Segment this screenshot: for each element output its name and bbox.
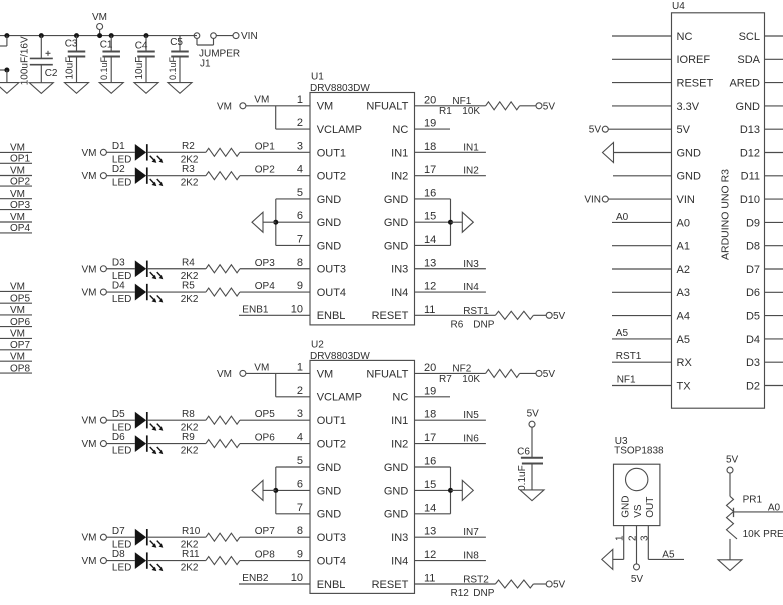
svg-text:VM: VM (82, 288, 97, 299)
svg-text:D8: D8 (746, 241, 760, 253)
wire SDA stub (765, 58, 783, 60)
svg-text:VM: VM (217, 369, 232, 380)
jumper J1 (194, 33, 240, 70)
svg-text:IN1: IN1 (463, 142, 479, 153)
wire (246, 372, 310, 374)
svg-text:4: 4 (297, 432, 303, 444)
ground (168, 83, 192, 94)
label DRV8803DW (310, 83, 370, 94)
svg-text:16: 16 (424, 187, 436, 199)
wire node NF2 (415, 363, 486, 374)
svg-text:D4: D4 (112, 281, 125, 292)
wire (106, 175, 134, 177)
svg-text:IN3: IN3 (391, 264, 408, 276)
svg-text:OP5: OP5 (255, 409, 275, 420)
op-amp U3 body (614, 464, 660, 525)
svg-text:A0: A0 (616, 212, 629, 223)
svg-text:C6: C6 (517, 447, 530, 458)
wire node OP4 (240, 281, 310, 292)
node 5V terminal PR1 (726, 455, 739, 474)
svg-text:OP1: OP1 (255, 141, 275, 152)
node VM terminal U1 pin 1 (217, 95, 269, 113)
svg-text:R9: R9 (182, 432, 195, 443)
wire D3 stub (765, 361, 783, 363)
node OP3 flag (0, 200, 32, 211)
svg-text:OUT4: OUT4 (317, 287, 346, 299)
svg-text:NFUALT: NFUALT (366, 368, 408, 380)
svg-text:RESET: RESET (372, 310, 409, 322)
svg-text:NC: NC (392, 124, 408, 136)
svg-text:R1: R1 (439, 106, 452, 117)
ground (603, 143, 614, 163)
svg-text:D11: D11 (741, 171, 760, 183)
wire (276, 106, 310, 129)
svg-text:D5: D5 (746, 311, 760, 323)
wire NC stub (415, 396, 451, 398)
svg-text:NF1: NF1 (452, 96, 471, 107)
svg-text:VM: VM (10, 351, 25, 362)
svg-text:D2: D2 (746, 380, 760, 392)
wire (612, 35, 672, 37)
svg-text:D3: D3 (112, 257, 125, 268)
svg-text:IN2: IN2 (463, 166, 479, 177)
wire (612, 268, 672, 270)
svg-text:U1: U1 (311, 72, 324, 83)
svg-text:OP3: OP3 (255, 258, 275, 269)
node OP7 flag (0, 340, 32, 351)
svg-text:IN4: IN4 (463, 282, 479, 293)
svg-text:A2: A2 (677, 264, 690, 276)
resistor R11 (181, 549, 240, 574)
wire (147, 536, 206, 538)
wire D9 stub (765, 221, 783, 223)
diode D4 (112, 281, 163, 306)
ground (462, 480, 473, 500)
node VM flag (0, 329, 32, 340)
wire SCL stub (765, 35, 783, 37)
svg-text:U2: U2 (311, 339, 324, 350)
svg-text:DRV8803DW: DRV8803DW (310, 83, 370, 94)
svg-text:OP8: OP8 (255, 550, 275, 561)
svg-text:ARDUINO UNO R3: ARDUINO UNO R3 (720, 169, 732, 260)
label U1 (311, 72, 324, 83)
svg-text:GND: GND (384, 217, 409, 229)
svg-text:U4: U4 (672, 1, 685, 12)
svg-text:TSOP1838: TSOP1838 (614, 445, 664, 456)
svg-text:A4: A4 (677, 311, 690, 323)
svg-text:GND: GND (317, 217, 342, 229)
node VM flag (0, 351, 32, 362)
svg-text:100uF/16V: 100uF/16V (20, 36, 31, 85)
node VM terminal D2 row (82, 171, 107, 182)
svg-text:C4: C4 (135, 41, 148, 52)
wire D6 stub (765, 291, 783, 293)
svg-text:9: 9 (297, 549, 303, 561)
svg-text:GND: GND (384, 462, 409, 474)
wire D2 stub (765, 385, 783, 387)
svg-text:6: 6 (297, 210, 303, 222)
svg-text:DNP: DNP (473, 588, 494, 599)
svg-text:D9: D9 (746, 217, 760, 229)
svg-text:11: 11 (424, 573, 435, 585)
wire (531, 464, 533, 490)
svg-text:OP5: OP5 (10, 293, 30, 304)
ground (134, 83, 158, 94)
svg-text:IN7: IN7 (463, 527, 479, 538)
node 5V terminal C6 (527, 409, 540, 428)
svg-text:10K PRESET: 10K PRESET (743, 529, 783, 540)
svg-text:2K2: 2K2 (181, 178, 199, 189)
wire VM rail (0, 35, 197, 37)
node VM terminal D6 row (82, 439, 107, 450)
svg-text:D5: D5 (112, 409, 125, 420)
wire node RST2 (415, 575, 496, 586)
node 5V terminal U4 (589, 125, 609, 136)
wire (612, 105, 672, 107)
label DRV8803DW (310, 351, 370, 362)
svg-text:SCL: SCL (739, 31, 760, 43)
label U2 pin names (317, 368, 409, 591)
resistor R2 (181, 141, 240, 166)
svg-text:OP6: OP6 (255, 433, 275, 444)
svg-text:D12: D12 (740, 147, 760, 159)
op-amp U4 body (672, 13, 765, 408)
capacitor C1 (99, 33, 120, 83)
wire node A5 U3 pin 3 (648, 526, 684, 561)
svg-text:10: 10 (291, 303, 303, 315)
ground (0, 83, 19, 94)
svg-text:15: 15 (424, 211, 436, 223)
wire connector pin 2 to ground (0, 68, 9, 83)
wire (106, 291, 134, 293)
svg-text:VM: VM (82, 556, 97, 567)
wire D12 stub (765, 152, 783, 154)
label U1 pin names (317, 101, 409, 323)
svg-text:18: 18 (424, 409, 436, 421)
svg-text:GND: GND (317, 462, 342, 474)
svg-text:5V: 5V (543, 369, 556, 380)
svg-text:VM: VM (82, 264, 97, 275)
svg-text:0.1uF: 0.1uF (99, 56, 109, 80)
wire (608, 198, 671, 200)
capacitor C5 (168, 36, 189, 83)
svg-text:20: 20 (424, 362, 436, 374)
svg-text:GND: GND (384, 485, 409, 497)
svg-text:OP4: OP4 (10, 223, 30, 234)
svg-text:D8: D8 (112, 549, 125, 560)
wire (533, 314, 546, 316)
resistor R12 DNP (451, 580, 534, 599)
svg-text:VIN: VIN (677, 194, 695, 206)
svg-text:VM: VM (217, 101, 232, 112)
wire node RST1 (415, 306, 496, 317)
wire node ENB1 (239, 305, 310, 316)
svg-text:2: 2 (297, 117, 303, 129)
svg-text:TX: TX (677, 380, 692, 392)
svg-text:NC: NC (392, 392, 408, 404)
svg-text:VM: VM (10, 189, 25, 200)
svg-text:IN2: IN2 (391, 171, 408, 183)
svg-text:20: 20 (424, 94, 436, 106)
svg-text:GND: GND (317, 509, 342, 521)
svg-text:5V: 5V (543, 102, 556, 113)
svg-text:5V: 5V (631, 574, 644, 585)
svg-text:A5: A5 (677, 334, 690, 346)
wire node IN4 (415, 282, 486, 293)
node VM terminal D8 row (82, 556, 107, 567)
svg-text:RX: RX (677, 357, 693, 369)
svg-text:16: 16 (424, 456, 436, 468)
wire (729, 539, 731, 560)
svg-text:OUT3: OUT3 (317, 264, 346, 276)
wire node A5 (612, 328, 672, 339)
wire (614, 152, 672, 154)
svg-text:VM: VM (317, 368, 334, 380)
svg-text:VM: VM (10, 329, 25, 340)
resistor R6 DNP (451, 311, 534, 330)
svg-text:GND: GND (384, 509, 409, 521)
resistor R8 (181, 409, 240, 434)
node VM terminal D7 row (82, 533, 107, 544)
diode D7 (112, 526, 163, 551)
wire node A0 wiper (734, 502, 783, 517)
svg-text:OP4: OP4 (255, 281, 275, 292)
svg-text:R6: R6 (451, 319, 464, 330)
svg-text:LED: LED (112, 178, 131, 189)
ground (602, 549, 613, 569)
svg-text:D4: D4 (746, 334, 760, 346)
svg-text:VM: VM (82, 148, 97, 159)
svg-text:VM: VM (10, 212, 25, 223)
wire U3 pin 2 (636, 526, 638, 564)
node OP5 flag (0, 293, 32, 304)
wire (608, 128, 671, 130)
wire node OP5 (240, 409, 310, 420)
ground (462, 212, 473, 232)
resistor R4 (181, 257, 240, 282)
wire node OP3 (240, 258, 310, 269)
node OP1 flag (0, 154, 32, 165)
node VM rail / connector junction (0, 33, 9, 46)
svg-text:A1: A1 (677, 241, 690, 253)
svg-text:GND: GND (736, 101, 761, 113)
wire node IN5 (415, 410, 486, 421)
svg-text:VIN: VIN (241, 31, 258, 42)
capacitor C6 (517, 447, 543, 491)
diode D5 (112, 409, 163, 434)
svg-text:OP1: OP1 (10, 154, 30, 165)
wire (106, 419, 134, 421)
svg-text:LED: LED (112, 446, 131, 457)
svg-text:OP3: OP3 (10, 200, 30, 211)
svg-text:VM: VM (82, 416, 97, 427)
node VM flag (0, 282, 32, 293)
svg-text:VM: VM (10, 305, 25, 316)
svg-text:IN4: IN4 (391, 287, 408, 299)
svg-text:IOREF: IOREF (677, 54, 711, 66)
svg-text:D6: D6 (112, 432, 125, 443)
svg-text:17: 17 (424, 164, 436, 176)
svg-text:NF2: NF2 (452, 363, 471, 374)
wire node NF1 (415, 96, 486, 107)
svg-text:LED: LED (112, 563, 131, 574)
svg-text:OUT4: OUT4 (317, 556, 346, 568)
wire (613, 175, 672, 177)
op-amp U2 body (310, 360, 415, 593)
svg-text:10K: 10K (462, 374, 480, 385)
resistor PR1 10K PRESET (727, 495, 783, 541)
svg-text:LED: LED (112, 294, 131, 305)
svg-text:IN1: IN1 (391, 147, 408, 159)
svg-text:R2: R2 (182, 141, 195, 152)
diode D2 (112, 164, 163, 189)
svg-text:13: 13 (424, 257, 436, 269)
svg-text:IN3: IN3 (463, 259, 479, 270)
label U1 pin numbers (291, 94, 437, 316)
svg-text:VM: VM (254, 362, 269, 373)
resistor R1 10K (439, 102, 520, 117)
svg-text:OP7: OP7 (10, 340, 30, 351)
svg-text:C1: C1 (100, 39, 113, 50)
ground (65, 83, 89, 94)
svg-text:RST1: RST1 (463, 306, 489, 317)
svg-text:OUT1: OUT1 (317, 415, 346, 427)
svg-text:10: 10 (291, 572, 303, 584)
svg-text:OP8: OP8 (10, 363, 30, 374)
wire (106, 268, 134, 270)
svg-text:R4: R4 (182, 257, 195, 268)
svg-text:ENB1: ENB1 (242, 305, 269, 316)
wire (520, 372, 536, 374)
svg-text:OP7: OP7 (255, 526, 275, 537)
svg-text:5V: 5V (527, 409, 540, 420)
svg-text:VM: VM (10, 166, 25, 177)
svg-text:GND: GND (677, 147, 702, 159)
svg-text:D6: D6 (746, 287, 760, 299)
svg-text:C2: C2 (45, 68, 58, 79)
wire node OP7 (240, 526, 310, 537)
wire D10 stub (765, 198, 783, 200)
svg-text:R11: R11 (182, 549, 200, 560)
svg-text:17: 17 (424, 432, 436, 444)
svg-text:NFUALT: NFUALT (366, 101, 408, 113)
svg-text:VM: VM (92, 12, 107, 23)
svg-text:D10: D10 (740, 194, 760, 206)
svg-text:VCLAMP: VCLAMP (317, 392, 362, 404)
wire (147, 151, 206, 153)
svg-text:A3: A3 (677, 287, 690, 299)
svg-text:11: 11 (424, 304, 435, 316)
wire node ENB2 (239, 573, 310, 584)
svg-text:15: 15 (424, 479, 436, 491)
svg-text:RST1: RST1 (616, 351, 642, 362)
label U2 pin numbers (291, 361, 437, 584)
svg-text:RST2: RST2 (463, 575, 489, 586)
node OP4 flag (0, 223, 32, 234)
svg-text:2K2: 2K2 (181, 294, 199, 305)
wire node NF1 (612, 375, 672, 386)
svg-text:R8: R8 (182, 409, 195, 420)
wire D8 stub (765, 245, 783, 247)
svg-text:4: 4 (297, 164, 303, 176)
wire (533, 583, 546, 585)
node VM flag (0, 166, 32, 177)
svg-text:A5: A5 (616, 328, 629, 339)
wire D4 stub (765, 338, 783, 340)
ground (252, 212, 263, 232)
node VIN terminal U4 (584, 194, 608, 205)
node 5V terminal U3 (631, 564, 644, 585)
svg-text:0.1uF: 0.1uF (168, 56, 178, 80)
label U2 (311, 339, 324, 350)
svg-text:8: 8 (297, 257, 303, 269)
svg-text:VM: VM (82, 171, 97, 182)
svg-text:19: 19 (424, 385, 436, 397)
wire node RST1 (612, 351, 672, 362)
svg-text:VM: VM (10, 282, 25, 293)
svg-text:0.1uF: 0.1uF (517, 465, 528, 491)
wire U2 GND pins 14-16 (415, 467, 463, 514)
svg-text:D7: D7 (746, 264, 760, 276)
svg-text:1: 1 (297, 94, 303, 106)
node VM terminal U2 pin 1 (217, 362, 269, 380)
label U3 pin numbers (615, 535, 651, 541)
wire (147, 268, 206, 270)
diode D3 (112, 257, 163, 282)
wire (612, 245, 672, 247)
svg-text:SDA: SDA (737, 54, 760, 66)
svg-text:5V: 5V (726, 455, 739, 466)
label U4 (672, 1, 685, 12)
svg-text:D13: D13 (740, 124, 760, 136)
U3 lens (626, 468, 648, 490)
capacitor C4 (134, 33, 155, 83)
wire node IN6 (415, 434, 486, 445)
wire node IN1 (415, 142, 486, 153)
svg-text:10K: 10K (462, 106, 480, 117)
node VM flag (0, 143, 32, 154)
wire (147, 443, 206, 445)
ground (29, 83, 53, 94)
svg-text:PR1: PR1 (743, 495, 763, 506)
svg-text:RESET: RESET (677, 78, 714, 90)
svg-text:OUT: OUT (645, 497, 656, 518)
ground (252, 480, 263, 500)
wire GND stub (765, 105, 783, 107)
wire node OP8 (240, 550, 310, 561)
svg-text:IN1: IN1 (391, 415, 408, 427)
wire (106, 560, 134, 562)
svg-text:DNP: DNP (473, 319, 494, 330)
wire node OP2 (240, 165, 310, 176)
wire (216, 35, 233, 37)
diode D6 (112, 432, 163, 457)
node VM flag (0, 212, 32, 223)
wire node IN8 (415, 551, 486, 562)
wire U1 GND pins 14-16 (415, 199, 463, 246)
wire (106, 443, 134, 445)
wire (531, 427, 533, 458)
svg-text:OP6: OP6 (10, 317, 30, 328)
svg-text:GND: GND (317, 485, 342, 497)
svg-text:DRV8803DW: DRV8803DW (310, 351, 370, 362)
svg-text:7: 7 (297, 502, 303, 514)
wire node A0 (612, 212, 672, 223)
label U3 (615, 436, 628, 447)
svg-text:OUT1: OUT1 (317, 147, 346, 159)
node 5V terminal (536, 102, 555, 113)
svg-text:ENBL: ENBL (317, 310, 346, 322)
